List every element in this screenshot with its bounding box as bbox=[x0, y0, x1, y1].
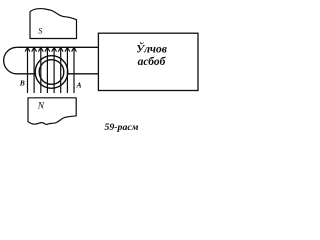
wire bottom right segment bbox=[68, 73, 99, 75]
measuring instrument box bbox=[98, 33, 198, 90]
wire left arc (rounded left end of loop) bbox=[4, 47, 17, 74]
svg-text:N: N bbox=[37, 102, 45, 112]
svg-text:Ўлчов: Ўлчов bbox=[136, 41, 167, 56]
coil ring inner circle bbox=[39, 60, 64, 85]
magnet S pole (top, wavy broken top edge) bbox=[30, 9, 77, 39]
coil ring outer circle bbox=[35, 56, 68, 89]
magnet N pole (bottom, wavy broken bottom edge) bbox=[28, 98, 76, 125]
field line 1 bbox=[25, 47, 30, 93]
svg-text:A: A bbox=[76, 81, 82, 90]
svg-text:B: B bbox=[19, 79, 25, 88]
svg-text:S: S bbox=[38, 27, 42, 36]
field line 4 bbox=[45, 47, 50, 93]
field line 3 bbox=[38, 47, 43, 93]
field line 2 bbox=[32, 47, 37, 93]
wire top (from loop to instrument) bbox=[17, 46, 99, 48]
field line 6 bbox=[58, 47, 63, 93]
svg-text:асбоб: асбоб bbox=[138, 56, 167, 68]
field line 5 bbox=[52, 47, 57, 93]
field line 7 bbox=[65, 47, 70, 93]
wire bottom left segment bbox=[17, 73, 36, 75]
svg-text:59-расм: 59-расм bbox=[105, 122, 139, 133]
field line 8 bbox=[72, 47, 77, 93]
